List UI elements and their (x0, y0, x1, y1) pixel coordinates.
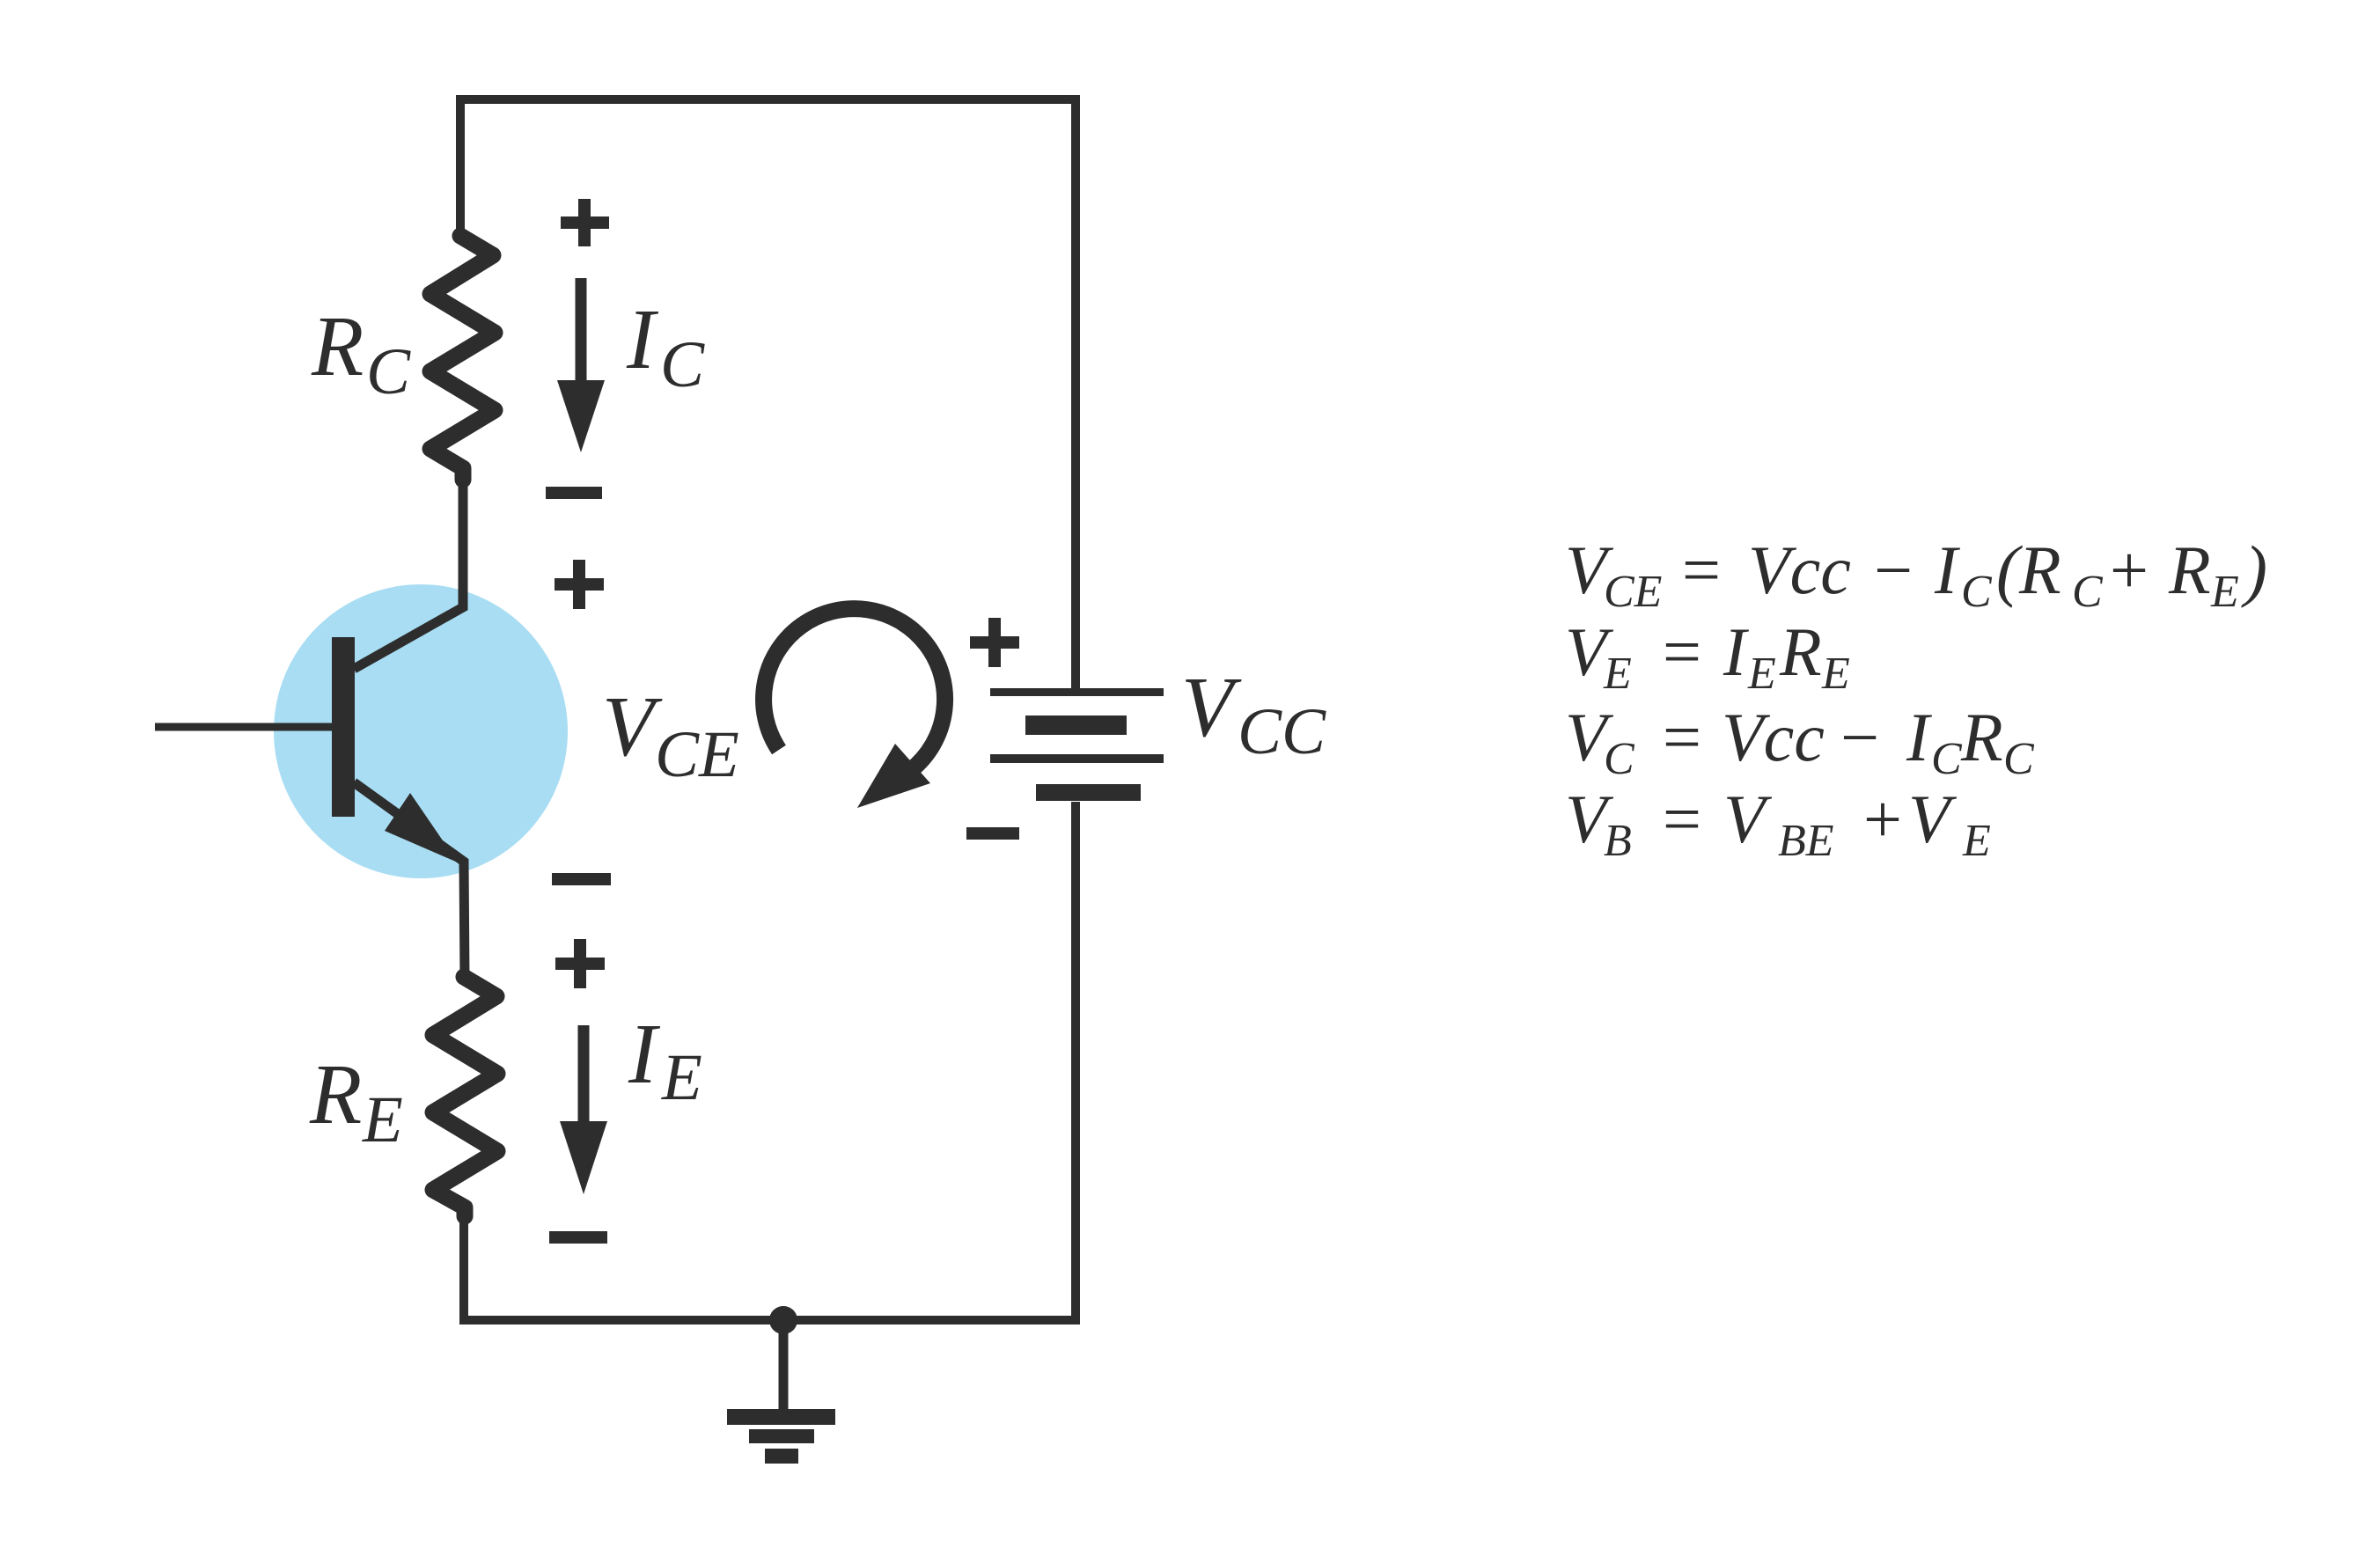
svg-text:C: C (1931, 734, 1963, 784)
svg-text:C: C (2003, 734, 2035, 784)
svg-text:R: R (1960, 699, 2003, 775)
svg-text:E: E (2210, 567, 2239, 617)
svg-text:I: I (1906, 699, 1933, 775)
svg-text:E: E (1962, 816, 1991, 866)
svg-text:R: R (311, 299, 364, 393)
svg-text:=: = (1678, 532, 1724, 608)
svg-text:C: C (2072, 567, 2104, 617)
svg-text:Vcc: Vcc (1748, 532, 1851, 608)
svg-text:V: V (602, 679, 663, 774)
svg-text:C: C (660, 328, 705, 401)
svg-text:C: C (366, 335, 411, 408)
svg-text:I: I (1723, 613, 1750, 690)
svg-text:I: I (626, 292, 659, 386)
svg-text:C: C (1961, 567, 1993, 617)
svg-text:+: + (1859, 781, 1906, 857)
svg-text:CC: CC (1238, 695, 1326, 768)
svg-text:Vcc: Vcc (1722, 699, 1825, 775)
svg-text:V: V (1723, 781, 1773, 857)
svg-text:): ) (2241, 532, 2267, 608)
svg-text:CE: CE (1604, 567, 1662, 617)
svg-text:−: − (1869, 532, 1916, 608)
svg-text:V: V (1908, 781, 1958, 857)
svg-text:=: = (1658, 781, 1705, 857)
svg-text:E: E (661, 1041, 702, 1114)
svg-text:CE: CE (655, 718, 739, 791)
svg-text:E: E (362, 1083, 403, 1156)
svg-text:C: C (1604, 734, 1635, 784)
svg-text:=: = (1658, 613, 1705, 690)
svg-text:(R: (R (1996, 532, 2061, 608)
svg-text:V: V (1181, 660, 1242, 754)
svg-text:B: B (1604, 816, 1632, 866)
svg-text:I: I (628, 1007, 661, 1101)
svg-text:E: E (1603, 649, 1632, 699)
svg-text:BE: BE (1778, 816, 1834, 866)
svg-text:E: E (1747, 649, 1776, 699)
svg-text:R: R (2168, 532, 2211, 608)
svg-text:I: I (1934, 532, 1961, 608)
svg-text:E: E (1821, 649, 1850, 699)
svg-text:+: + (2105, 532, 2152, 608)
svg-text:R: R (1779, 613, 1822, 690)
svg-text:−: − (1836, 699, 1883, 775)
svg-text:=: = (1658, 699, 1705, 775)
svg-text:R: R (309, 1047, 362, 1141)
